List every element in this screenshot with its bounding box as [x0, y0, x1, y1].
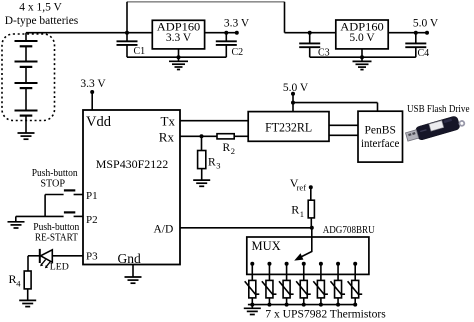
svg-text:P2: P2 — [86, 214, 98, 226]
svg-text:1: 1 — [300, 209, 304, 219]
svg-text:LED: LED — [50, 262, 69, 273]
svg-text:Tx: Tx — [161, 113, 176, 128]
svg-text:D-type batteries: D-type batteries — [5, 15, 79, 27]
svg-text:C2: C2 — [232, 47, 244, 58]
svg-text:5.0 V: 5.0 V — [413, 17, 439, 29]
svg-text:Gnd: Gnd — [118, 251, 141, 266]
svg-text:3: 3 — [216, 161, 220, 171]
svg-text:Rx: Rx — [159, 130, 175, 145]
svg-text:5.0 V: 5.0 V — [283, 82, 309, 94]
svg-text:Push-button: Push-button — [32, 167, 79, 179]
svg-text:3.3 V: 3.3 V — [80, 78, 106, 90]
svg-text:4: 4 — [16, 279, 21, 289]
svg-text:A/D: A/D — [154, 224, 174, 236]
svg-text:P3: P3 — [86, 250, 98, 262]
svg-text:7 x UPS7982 Thermistors: 7 x UPS7982 Thermistors — [265, 309, 386, 321]
svg-text:RE-START: RE-START — [35, 231, 78, 243]
svg-text:FT232RL: FT232RL — [265, 121, 312, 135]
svg-text:3.3 V: 3.3 V — [166, 32, 192, 44]
svg-text:2: 2 — [231, 146, 235, 156]
svg-text:USB Flash Drive: USB Flash Drive — [407, 104, 470, 115]
svg-text:ref: ref — [297, 183, 307, 193]
svg-text:4 x 1,5 V: 4 x 1,5 V — [19, 2, 62, 14]
svg-text:C1: C1 — [134, 46, 146, 57]
svg-text:R: R — [223, 142, 231, 154]
svg-text:ADG708BRU: ADG708BRU — [323, 225, 375, 236]
svg-text:R: R — [208, 156, 216, 168]
svg-text:MSP430F2122: MSP430F2122 — [96, 159, 169, 171]
svg-text:STOP: STOP — [40, 179, 65, 190]
svg-text:PenBS: PenBS — [365, 125, 396, 137]
svg-text:3.3 V: 3.3 V — [224, 17, 250, 29]
svg-text:MUX: MUX — [252, 239, 281, 253]
svg-text:R: R — [291, 203, 299, 217]
svg-text:interface: interface — [361, 138, 400, 150]
svg-text:P1: P1 — [86, 190, 98, 202]
svg-text:Vdd: Vdd — [86, 114, 112, 130]
svg-text:C4: C4 — [418, 48, 430, 59]
svg-text:C3: C3 — [318, 48, 330, 59]
svg-text:5.0 V: 5.0 V — [349, 32, 375, 44]
